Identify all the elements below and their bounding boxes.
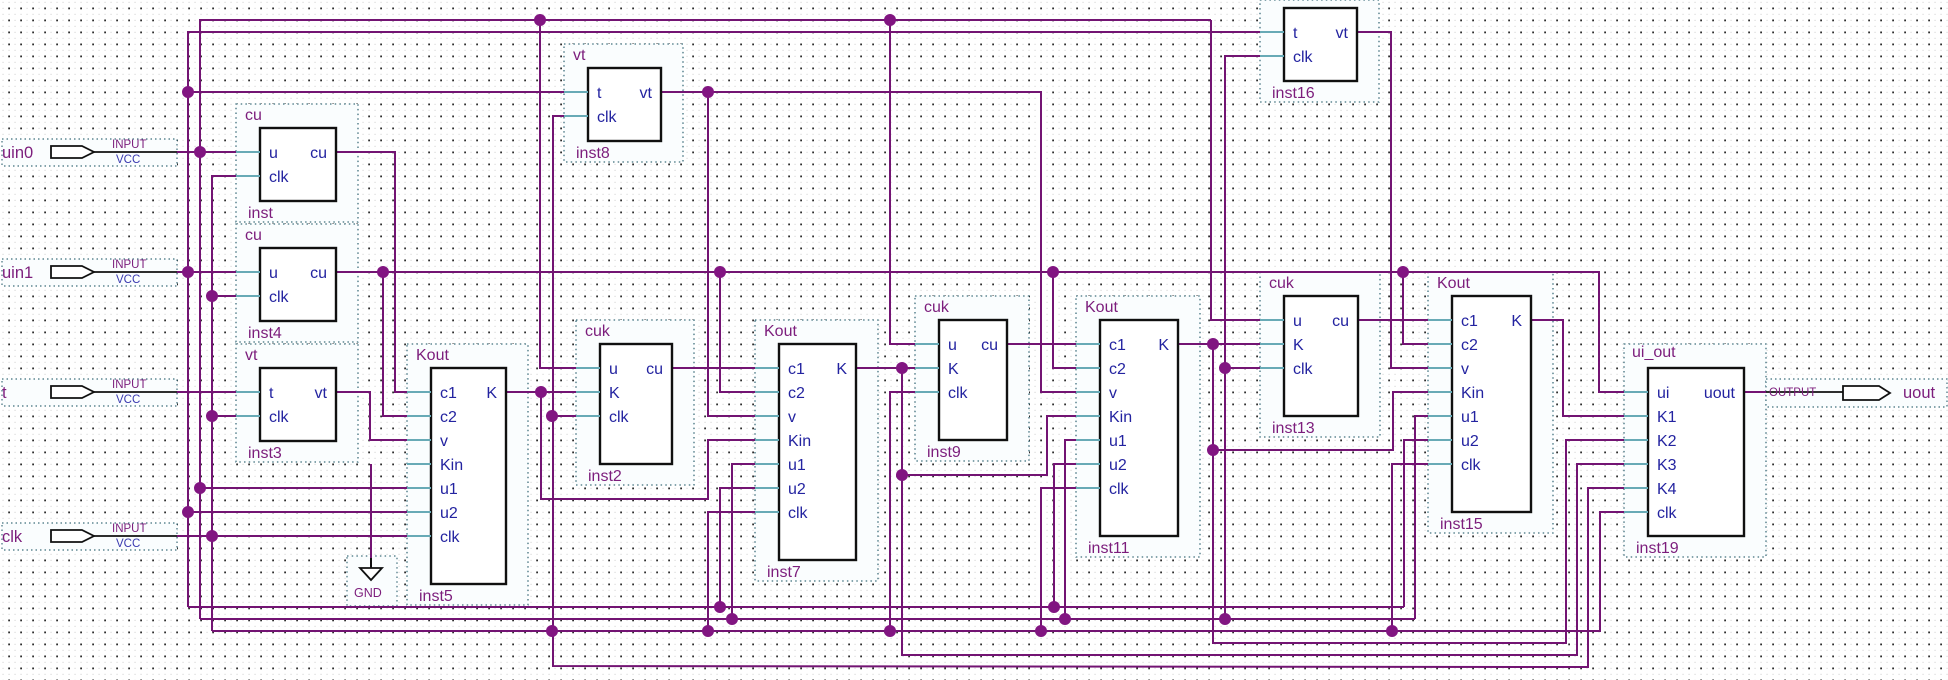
svg-text:u1: u1 (1461, 409, 1479, 426)
wire clk net vertical x212 (212, 176, 236, 631)
block cu inst U1 (236, 107, 336, 222)
svg-text:vt: vt (315, 385, 328, 402)
svg-text:cuk: cuk (924, 299, 950, 316)
block Kout inst15 (1428, 275, 1531, 533)
wire t input row to inst3.t (177, 391, 236, 393)
svg-text:Kin: Kin (1109, 409, 1132, 426)
svg-text:inst11: inst11 (1088, 540, 1130, 557)
svg-text:VCC: VCC (116, 394, 140, 406)
svg-text:u1: u1 (1109, 433, 1127, 450)
ground GND symbol (354, 558, 382, 600)
wire inst11.u2 riser to H1 (1054, 464, 1076, 607)
svg-text:K4: K4 (1657, 481, 1677, 498)
svg-text:uin0: uin0 (2, 144, 33, 162)
selection box inst16 (1260, 0, 1379, 102)
wire inst7.u2 riser to H1 (720, 488, 755, 607)
selection box input uin0 (2, 139, 177, 166)
junction at 200,152 (194, 146, 206, 158)
svg-text:ui: ui (1657, 385, 1669, 402)
wire K11 branch to inst15.Kin (1213, 392, 1428, 450)
svg-text:clk: clk (1293, 49, 1314, 66)
block Kout inst11 (1076, 299, 1178, 557)
svg-text:t: t (597, 85, 602, 102)
svg-text:clk: clk (1293, 361, 1314, 378)
junction at 902,475 (896, 469, 908, 481)
svg-text:K2: K2 (1657, 433, 1677, 450)
selection box inst15 (1428, 272, 1553, 533)
selection box output uout (1766, 379, 1947, 407)
svg-text:clk: clk (948, 385, 969, 402)
wire inst3.vt to inst5.v (336, 392, 431, 440)
svg-text:t: t (1293, 25, 1298, 42)
svg-text:v: v (440, 433, 448, 450)
wire vt8 branch to inst7.v (708, 92, 755, 416)
wire H3 bus to inst19.clk (212, 512, 1624, 631)
block Kout inst7 (755, 323, 856, 581)
svg-text:INPUT: INPUT (112, 259, 147, 271)
wire inst5.Kin to GND (370, 464, 372, 558)
wire branch cu4 to inst5.c2 (383, 272, 407, 416)
junction at 212,416 (206, 410, 218, 422)
wire inst8.clk vertical x552 (553, 116, 1624, 667)
block cu inst4 (236, 227, 336, 342)
wire inst13.cu output to inst15.c1 (1358, 319, 1428, 321)
svg-text:cuk: cuk (1269, 275, 1295, 292)
svg-text:uout: uout (1903, 384, 1936, 402)
selection box GND (347, 556, 397, 606)
input pin t (2, 379, 177, 406)
wire K5 branch to inst7.Kin (541, 392, 755, 499)
junction at 708,92 (702, 86, 714, 98)
wire inst9.cu output to inst11.c1 (1007, 343, 1076, 345)
selection box input t (2, 379, 177, 406)
wire inst2.cu output to inst7.c1 (672, 367, 755, 369)
wire inst8.vt output row (661, 92, 1076, 392)
wire inst5.K output to inst2.K (506, 391, 576, 393)
svg-text:clk: clk (269, 289, 290, 306)
svg-text:clk: clk (1657, 505, 1678, 522)
svg-text:cu: cu (1332, 313, 1349, 330)
wire inst11.clk riser to H3 (1041, 488, 1076, 631)
junction at 890,20 (884, 14, 896, 26)
junction at 1213,344 (1207, 338, 1219, 350)
wire inst4.cu output row 272 (336, 272, 1624, 392)
output pin uout (1769, 384, 1936, 402)
svg-text:INPUT: INPUT (112, 523, 147, 535)
svg-text:K: K (1511, 313, 1522, 330)
junction at 1053,272 (1047, 266, 1059, 278)
svg-text:VCC: VCC (116, 538, 140, 550)
junction at 541,392 (535, 386, 547, 398)
svg-text:vt: vt (573, 47, 586, 64)
svg-text:cuk: cuk (585, 323, 611, 340)
block ui_out inst19 (1624, 344, 1744, 557)
junction at 1054,607 (1048, 601, 1060, 613)
svg-text:t: t (269, 385, 274, 402)
junction at 200,488 (194, 482, 206, 494)
wire inst15.u1 riser to H2 end (1415, 416, 1428, 619)
wire output pin black segment (1766, 391, 1843, 393)
wire inst5.u2 feed (188, 511, 407, 513)
svg-text:c2: c2 (1461, 337, 1478, 354)
svg-text:K: K (836, 361, 847, 378)
svg-text:uout: uout (1704, 385, 1736, 402)
wire K11 branch vertical to H4 (1213, 344, 1624, 643)
svg-text:clk: clk (597, 109, 618, 126)
svg-text:INPUT: INPUT (112, 379, 147, 391)
selection box inst9 (915, 296, 1029, 461)
wire H2 bus (200, 618, 1415, 620)
svg-text:u1: u1 (440, 481, 458, 498)
svg-text:u: u (1293, 313, 1302, 330)
selection box inst4 (236, 224, 358, 342)
wire inst.cu output to inst5.c1 (336, 152, 407, 392)
svg-text:inst4: inst4 (248, 325, 282, 342)
svg-text:Kout: Kout (1085, 299, 1118, 316)
wire inst7.u1 riser to H2 (732, 464, 755, 619)
svg-text:clk: clk (1461, 457, 1482, 474)
junction at 890,631 (884, 625, 896, 637)
junction at 540,20 (534, 14, 546, 26)
wire inst7.K output to inst9.K (856, 367, 915, 369)
input pin uin0 (2, 139, 177, 166)
svg-text:Kout: Kout (416, 347, 449, 364)
svg-text:inst8: inst8 (576, 145, 610, 162)
svg-text:clk: clk (2, 528, 23, 546)
wire inst9.clk riser to H3 (890, 392, 915, 631)
junction at 720,607 (714, 601, 726, 613)
svg-text:K: K (486, 385, 497, 402)
block cuk inst2 (576, 323, 672, 485)
wire inst16.clk vertical x1225 (1225, 56, 1260, 619)
svg-text:inst3: inst3 (248, 445, 282, 462)
junction at 212,536 (206, 530, 218, 542)
wire inst8.t feed from x188 (188, 91, 564, 93)
svg-text:VCC: VCC (116, 274, 140, 286)
svg-text:clk: clk (609, 409, 630, 426)
junction at 1065,619 (1059, 613, 1071, 625)
svg-text:vt: vt (640, 85, 653, 102)
wire inst15.K output to inst19.K1 (1531, 320, 1624, 416)
selection box inst19 (1624, 344, 1766, 557)
wire net uin0 branch x890 to inst9.u (890, 20, 915, 344)
svg-text:clk: clk (788, 505, 809, 522)
svg-text:Kin: Kin (788, 433, 811, 450)
junction at 1041,631 (1035, 625, 1047, 637)
input pin clk (2, 523, 177, 550)
wire inst19.uout to output pin (1744, 391, 1766, 393)
svg-text:cu: cu (646, 361, 663, 378)
svg-text:inst9: inst9 (927, 444, 961, 461)
wire net uin1 vertical x188 to inst16.t (188, 32, 1260, 607)
wire uin0 input row to inst.u (177, 151, 236, 153)
svg-text:Kin: Kin (440, 457, 463, 474)
svg-text:v: v (1461, 361, 1469, 378)
svg-text:ui_out: ui_out (1632, 344, 1676, 361)
svg-text:c1: c1 (440, 385, 457, 402)
wire branch cu4 to inst15.c2 (1403, 272, 1428, 344)
block vt inst8 (564, 47, 661, 162)
wire K7 branch to inst11.Kin (902, 416, 1076, 475)
svg-text:K1: K1 (1657, 409, 1677, 426)
wire branch cu4 to inst7.c2 (720, 272, 755, 392)
wire uin1 input row to inst4.u (177, 271, 236, 273)
svg-text:u2: u2 (788, 481, 806, 498)
wire inst11.K output to inst13.K (1178, 343, 1260, 345)
wire K7 branch vertical x902 to H5 (902, 368, 1624, 655)
svg-text:vt: vt (245, 347, 258, 364)
svg-text:inst5: inst5 (419, 588, 453, 605)
svg-text:v: v (788, 409, 796, 426)
svg-text:c2: c2 (440, 409, 457, 426)
svg-text:inst7: inst7 (767, 564, 801, 581)
junction at 1225,368 (1219, 362, 1231, 374)
junction at 188,92 (182, 86, 194, 98)
wire inst16.vt output to inst15.v (1357, 32, 1428, 368)
wire inst13.clk feed (1225, 367, 1260, 369)
svg-text:cu: cu (310, 145, 327, 162)
svg-text:c2: c2 (1109, 361, 1126, 378)
svg-text:uin1: uin1 (2, 264, 33, 282)
wire inst15.u2 riser to H1 end (1404, 440, 1428, 607)
wire inst3.clk feed (212, 415, 236, 417)
svg-text:OUTPUT: OUTPUT (1769, 387, 1816, 399)
svg-text:Kout: Kout (764, 323, 797, 340)
svg-text:u1: u1 (788, 457, 806, 474)
svg-text:inst16: inst16 (1272, 85, 1315, 102)
svg-text:u2: u2 (1461, 433, 1479, 450)
svg-text:u2: u2 (440, 505, 458, 522)
svg-text:u: u (609, 361, 618, 378)
svg-text:K: K (1293, 337, 1304, 354)
svg-text:Kout: Kout (1437, 275, 1470, 292)
junction at 1392,631 (1386, 625, 1398, 637)
block Kout inst5 (407, 347, 506, 605)
wire inst15.clk riser to H3 (1392, 464, 1428, 631)
junction at 552,416 (546, 410, 558, 422)
svg-text:clk: clk (269, 169, 290, 186)
selection box inst3 (236, 344, 358, 462)
selection box inst2 (576, 320, 694, 485)
svg-text:t: t (2, 384, 7, 402)
wire inst7.clk riser to H3 (708, 512, 755, 631)
junction at 732,619 (726, 613, 738, 625)
svg-text:GND: GND (354, 586, 382, 600)
block cuk inst13 (1260, 275, 1358, 437)
svg-text:u2: u2 (1109, 457, 1127, 474)
svg-text:c1: c1 (1461, 313, 1478, 330)
wire inst11.u1 riser to H2 (1065, 440, 1076, 619)
svg-text:cu: cu (981, 337, 998, 354)
svg-text:clk: clk (269, 409, 290, 426)
junction at 1213,450 (1207, 444, 1219, 456)
svg-text:v: v (1109, 385, 1117, 402)
junction at 720,272 (714, 266, 726, 278)
block cuk inst9 (915, 299, 1007, 461)
selection box input uin1 (2, 259, 177, 286)
svg-text:cu: cu (245, 107, 262, 124)
wire H1 bus (188, 606, 1404, 608)
junction at 708,631 (702, 625, 714, 637)
svg-text:inst: inst (248, 205, 273, 222)
svg-text:cu: cu (310, 265, 327, 282)
wire inst5.u1 feed (200, 487, 407, 489)
junction at 902,368 (896, 362, 908, 374)
wire branch cu4 to inst11.c2 (1053, 272, 1076, 368)
svg-text:clk: clk (1109, 481, 1130, 498)
junction at 383,272 (377, 266, 389, 278)
svg-text:K: K (948, 361, 959, 378)
svg-text:u: u (269, 145, 278, 162)
svg-text:K: K (1158, 337, 1169, 354)
wire net uin0 branch x540 to inst2.u (540, 20, 576, 368)
svg-text:c2: c2 (788, 385, 805, 402)
wire inst2.clk feed (552, 415, 576, 417)
svg-text:inst19: inst19 (1636, 540, 1679, 557)
svg-text:VCC: VCC (116, 154, 140, 166)
junction at 212,296 (206, 290, 218, 302)
selection box inst8 (564, 44, 683, 162)
junction at 1225,619 (1219, 613, 1231, 625)
block vt inst3 (236, 347, 336, 462)
selection box inst5 (407, 344, 528, 605)
svg-text:vt: vt (1336, 25, 1349, 42)
junction at 188,512 (182, 506, 194, 518)
block vt inst16 (1260, 8, 1357, 102)
selection box inst (236, 104, 358, 222)
wire inst4.clk feed (212, 295, 236, 297)
wire net uin0 vertical x200 top bus (200, 20, 1211, 619)
svg-text:K: K (609, 385, 620, 402)
selection box inst7 (755, 320, 878, 581)
svg-text:K3: K3 (1657, 457, 1677, 474)
wire net uin0 to inst13.u (1211, 20, 1260, 320)
junction at 552,631 (546, 625, 558, 637)
svg-text:inst15: inst15 (1440, 516, 1483, 533)
svg-text:u: u (948, 337, 957, 354)
svg-text:inst2: inst2 (588, 468, 622, 485)
junction at 1403,272 (1397, 266, 1409, 278)
svg-text:INPUT: INPUT (112, 139, 147, 151)
svg-text:c1: c1 (788, 361, 805, 378)
svg-text:cu: cu (245, 227, 262, 244)
svg-text:inst13: inst13 (1272, 420, 1315, 437)
wire clk input row to inst5.clk (177, 535, 407, 537)
svg-text:clk: clk (440, 529, 461, 546)
svg-text:Kin: Kin (1461, 385, 1484, 402)
selection box input clk (2, 523, 177, 550)
input pin uin1 (2, 259, 177, 286)
selection box inst13 (1260, 272, 1380, 437)
svg-text:u: u (269, 265, 278, 282)
selection box inst11 (1076, 296, 1200, 557)
junction at 188,272 (182, 266, 194, 278)
svg-text:c1: c1 (1109, 337, 1126, 354)
